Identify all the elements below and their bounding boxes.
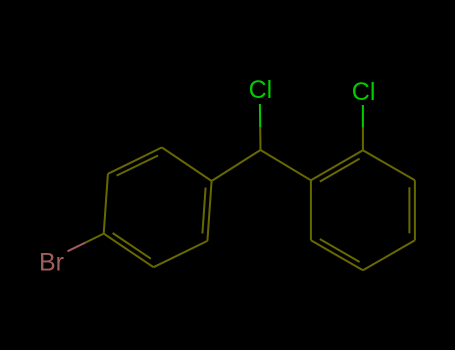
wire bond CH-Cl olive half (259, 127, 261, 150)
wire right-ring double bond inner line (320, 239, 360, 262)
wire right-ring bond (310, 180, 312, 240)
wire right-ring double bond inner line (408, 187, 410, 233)
wire left-ring bond C6-C1 (162, 147, 212, 181)
wire bond Br red half (68, 243, 86, 252)
wire bond CH-right ring (261, 150, 311, 180)
wire left-ring bond C5-C6 (108, 147, 162, 173)
wire bond Br olive half (86, 234, 104, 243)
wire left-ring bond C3-C4 (104, 234, 154, 268)
wire right-ring bond (311, 150, 363, 180)
wire right-ring bond (414, 180, 416, 240)
wire right-ring bond (363, 150, 415, 180)
wire right-ring double bond inner line (320, 159, 360, 182)
svg-text:Br: Br (39, 249, 64, 277)
svg-text:Cl: Cl (249, 76, 273, 104)
wire bond CH-left ring (212, 150, 261, 181)
wire left-ring bond C2-C3 (154, 241, 208, 267)
wire left-ring double bond inner line C3-C4 (113, 233, 151, 259)
wire left-ring double bond inner line C5-C6 (117, 156, 158, 176)
wire bond CH-Cl green half (259, 104, 261, 127)
wire bond ring-Cl olive half (362, 128, 364, 151)
wire right-ring bond (363, 240, 415, 270)
wire bond ring-Cl green half (362, 105, 364, 128)
wire left-ring double bond inner line C1-C2 (202, 188, 205, 234)
wire right-ring bond (311, 240, 363, 270)
wire left-ring bond C4-C5 (104, 174, 108, 234)
svg-text:Cl: Cl (352, 78, 376, 106)
wire left-ring bond C1-C2 (207, 181, 211, 241)
